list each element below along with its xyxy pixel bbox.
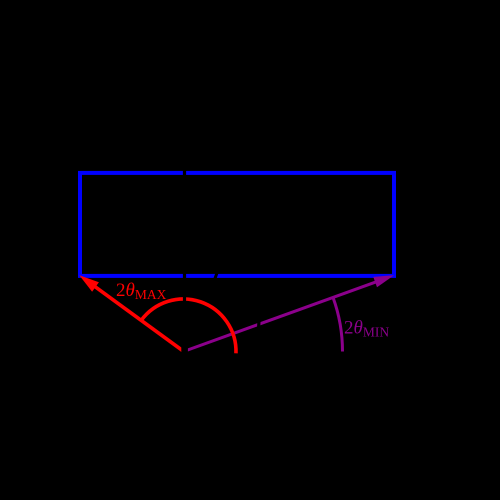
detector rectangle (blue) [80,173,394,276]
red angle arc (2-theta-max) [141,299,236,353]
purple angle arc (2-theta-min) [333,297,342,351]
black occluding tick on purple line [257,318,261,331]
purple beam line to bottom-right detector corner [184,281,379,351]
black occluding beam line (vertical through detector centre) [183,150,186,340]
red beam line to bottom-left detector corner [92,284,185,352]
purple arrowhead [373,275,394,287]
red arrowhead [79,275,99,292]
black occluding patch at sample vertex [181,345,188,363]
black occluding beam stub through bottom edge [213,267,219,285]
